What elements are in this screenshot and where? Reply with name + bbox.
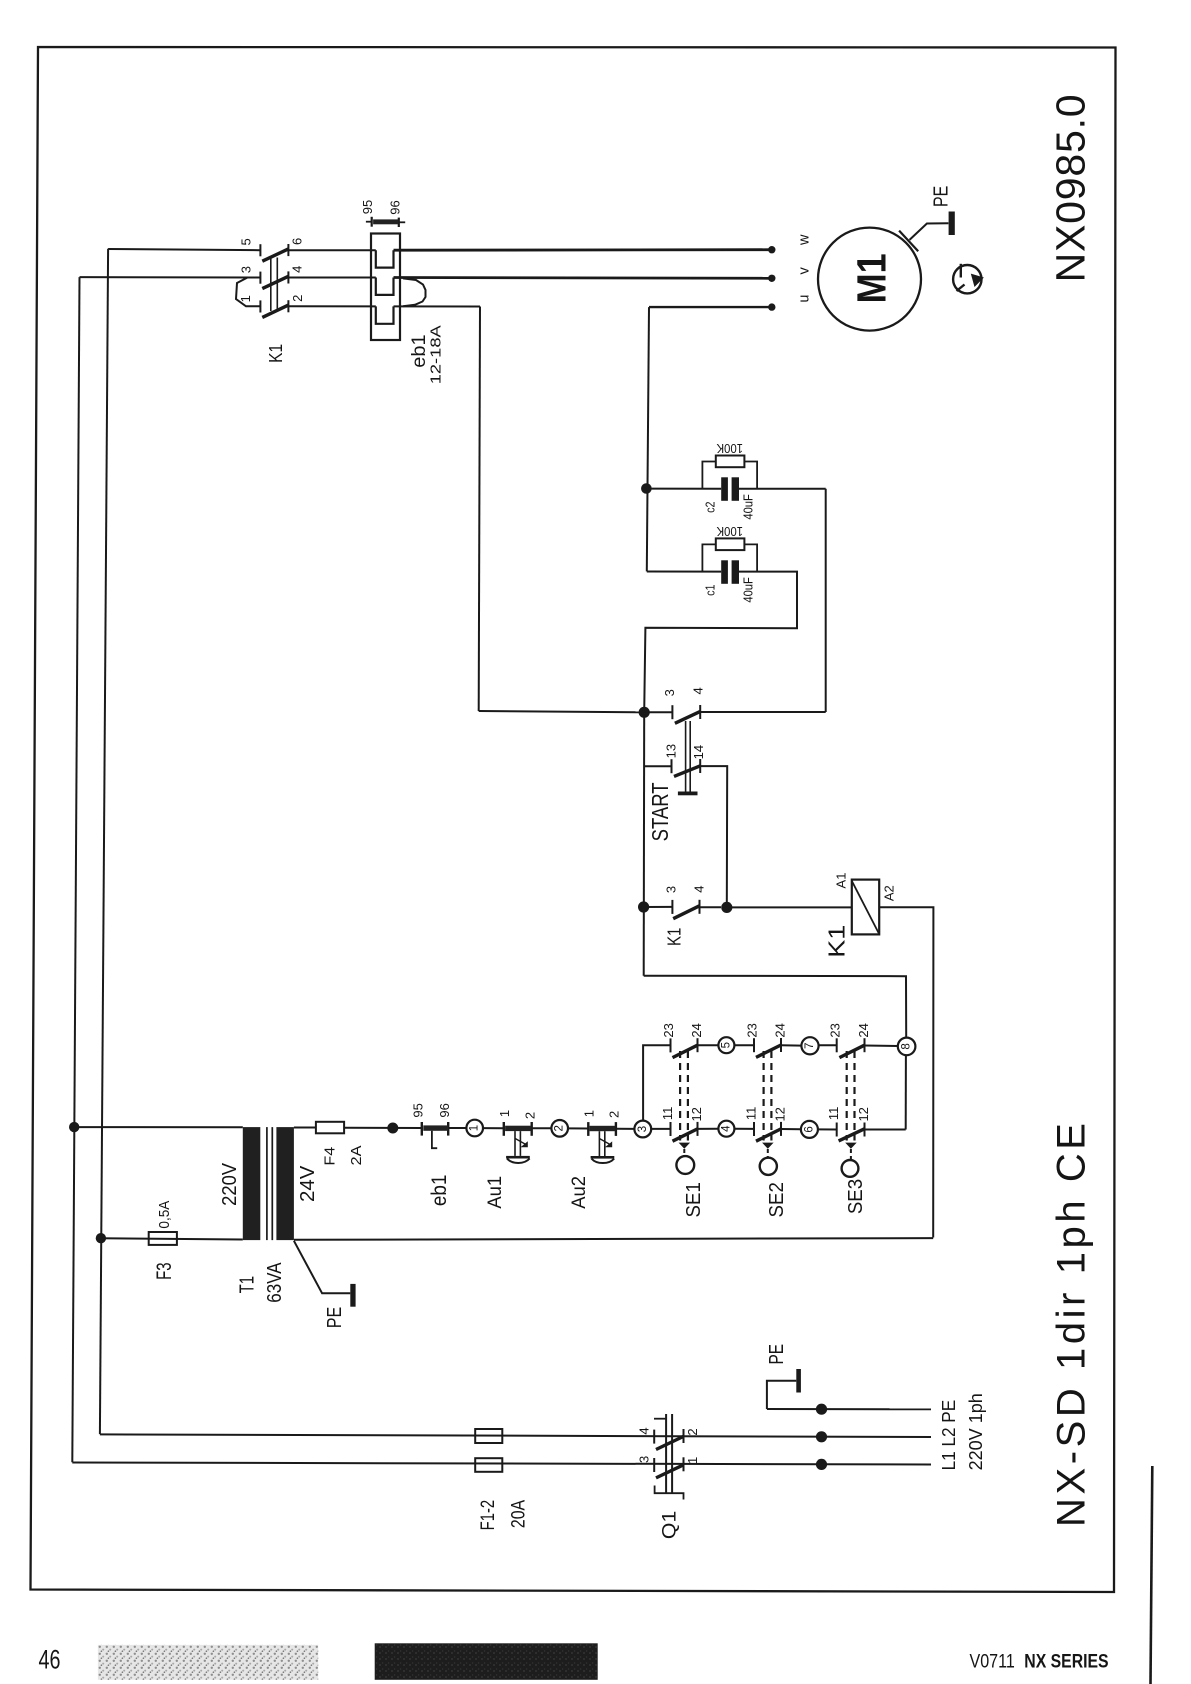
svg-text:2: 2 [685, 1428, 700, 1435]
wire motor U branch vertical [647, 307, 649, 571]
contact SE3 23-24 ticks [836, 1038, 838, 1052]
wire node 6 to SE3-11 [818, 1128, 837, 1130]
overload eb1 heater U [376, 306, 394, 323]
svg-text:NX-SD 1dir 1ph CE: NX-SD 1dir 1ph CE [1050, 1123, 1094, 1527]
wire K1 aux node to contact [644, 906, 673, 908]
wire START 4 to c2 riser [700, 711, 826, 713]
svg-text:14: 14 [691, 745, 706, 759]
contact eb1 95-96 aux ticks [421, 1122, 423, 1136]
node dot K1 aux left [638, 901, 649, 912]
contactor K1 pole 3-4 ticks [259, 272, 261, 284]
linkage SE1 arrow [679, 1143, 691, 1149]
wire c2 row left [646, 488, 721, 490]
svg-text:95: 95 [360, 200, 375, 214]
wire supply rail A (L1) vertical [72, 277, 79, 1462]
node dot START [639, 707, 650, 718]
contact SE1 11-12 ticks [670, 1122, 672, 1136]
svg-text:24: 24 [689, 1023, 704, 1037]
svg-text:1: 1 [469, 1125, 481, 1131]
wire bottom row right (secondary to coil return) [294, 1238, 933, 1240]
wire phase U to eb1 [288, 305, 375, 307]
svg-text:11: 11 [744, 1107, 759, 1121]
svg-text:11: 11 [660, 1107, 675, 1121]
wire SE3-24 to node 8 [865, 1045, 898, 1048]
resistor 100K (c2) [716, 456, 745, 468]
wire phase W to eb1 [288, 249, 375, 251]
pushbutton Au1 twist-release mark [515, 1139, 527, 1146]
pushbutton Au2 bridge [590, 1126, 616, 1131]
linkage SE3 dashed [846, 1051, 848, 1141]
svg-text:40uF: 40uF [741, 494, 756, 520]
contact START 13-14 ticks [671, 759, 673, 773]
transformer T1 primary winding [243, 1127, 260, 1240]
svg-text:13: 13 [664, 744, 679, 758]
fuse F1 [475, 1429, 502, 1443]
wire phase V to eb1 [288, 277, 375, 279]
pushbutton Au2 ticks [587, 1122, 589, 1136]
svg-text:4: 4 [720, 1125, 732, 1132]
svg-text:M1: M1 [849, 253, 895, 303]
switch Q1 linkage [665, 1414, 667, 1493]
contactor K1 pole 1-2 blade [262, 305, 288, 317]
svg-text:3: 3 [239, 266, 254, 273]
node L1 terminal dot [816, 1459, 827, 1470]
wire node 2 to Au2 [568, 1127, 588, 1129]
contact SE2 23-24 blade [756, 1045, 781, 1057]
node circle 2 [551, 1120, 568, 1137]
svg-text:2: 2 [554, 1125, 566, 1131]
svg-text:4: 4 [290, 266, 305, 273]
wire L1 bottom row [72, 1463, 931, 1465]
wire phase V to motor [394, 276, 772, 280]
svg-text:95: 95 [411, 1103, 426, 1117]
contact eb1 95-96 stubs [366, 221, 372, 223]
svg-text:K1: K1 [664, 928, 684, 947]
wire node 7 to SE3-23 [819, 1044, 837, 1046]
svg-text:w: w [797, 234, 813, 246]
actuator SE1 [676, 1156, 694, 1174]
svg-text:1: 1 [238, 295, 253, 302]
svg-text:6: 6 [803, 1126, 815, 1132]
node circle 8 [898, 1038, 916, 1056]
resistor 100K (c1) [716, 538, 745, 550]
fuse F4 [316, 1122, 344, 1134]
wire c1 row right with return [644, 572, 797, 713]
contactor K1 pole 5-6 ticks [259, 244, 261, 256]
svg-text:24: 24 [856, 1023, 871, 1037]
svg-text:4: 4 [691, 687, 706, 694]
svg-text:Q1: Q1 [658, 1511, 680, 1539]
contact SE1 23-24 blade [673, 1045, 698, 1057]
svg-text:V0711: V0711 [970, 1652, 1015, 1673]
svg-text:46: 46 [39, 1645, 61, 1675]
ground PE (T1) [350, 1284, 355, 1307]
svg-text:c1: c1 [702, 585, 717, 596]
contact K1 3-4 ticks [671, 900, 673, 914]
contact START 13-14 left wire [645, 765, 672, 767]
node dot rail B / bottom row [96, 1233, 106, 1243]
overload eb1 heater W [376, 250, 394, 267]
wire secondary top to F4 [294, 1127, 316, 1129]
svg-text:12-18A: 12-18A [429, 325, 445, 384]
svg-text:24V: 24V [296, 1165, 319, 1202]
wire phase W to motor [394, 248, 772, 251]
wire SE1-12 to node 4 [698, 1128, 719, 1130]
wire bottom row left (rail B to F3) [101, 1238, 243, 1239]
wire PE riser [767, 1381, 796, 1409]
svg-text:2: 2 [290, 295, 305, 302]
svg-text:12: 12 [689, 1107, 704, 1121]
resistor loop c1 [702, 544, 715, 571]
jumper L to pole 1 [236, 278, 260, 307]
svg-text:SE3: SE3 [844, 1179, 867, 1214]
node PE terminal dot [816, 1404, 827, 1415]
transformer T1 core lines [266, 1127, 268, 1240]
wire top row to K1 pole 5 [108, 249, 260, 250]
svg-text:1: 1 [497, 1110, 512, 1117]
wire supply rail B (L2) vertical [100, 249, 108, 1434]
contactor K1 linkage [270, 258, 272, 312]
pushbutton Au2 stem [598, 1131, 600, 1156]
coil K1 [852, 880, 879, 935]
svg-text:A1: A1 [834, 873, 849, 889]
pushbutton Au2 twist-release mark [600, 1139, 612, 1146]
contact eb1 aux thermal stem [432, 1131, 437, 1148]
contact eb1 95-96 aux bridge [423, 1125, 448, 1130]
node circle 1 [466, 1120, 483, 1137]
pushbutton START head [678, 792, 698, 796]
wire node 3 riser to row 23-24 [643, 1045, 670, 1120]
svg-text:u: u [797, 295, 813, 303]
node dot c2 [641, 483, 652, 494]
wire node 1 to Au1 [483, 1127, 504, 1129]
pushbutton Au1 stem [514, 1131, 516, 1156]
actuator SE2 [760, 1158, 777, 1175]
switch Q1 pole 3-4 blade [656, 1436, 684, 1449]
linkage SE3 arrow [845, 1143, 857, 1149]
svg-text:v: v [796, 267, 812, 275]
node circle 4 [718, 1121, 734, 1137]
contact SE2 23-24 ticks [753, 1038, 755, 1052]
wire SE3-12 to riser [865, 1129, 906, 1131]
pushbutton Au1 bridge [505, 1126, 531, 1131]
contact SE1 23-24 ticks [670, 1038, 672, 1052]
svg-text:PE: PE [930, 186, 952, 207]
node circle 5 [718, 1037, 734, 1053]
wire SE2-24 to node 7 [781, 1044, 801, 1046]
pushbutton Au1 ticks [503, 1122, 505, 1136]
contact SE3 11-12 blade [839, 1129, 865, 1141]
svg-text:SE2: SE2 [765, 1182, 788, 1217]
wire riser row 11-12 to node 8 [905, 1055, 907, 1129]
wire T1 PE diagonal [294, 1241, 350, 1294]
svg-text:L1 L2 PE: L1 L2 PE [938, 1400, 959, 1471]
wire PE bottom row [767, 1408, 931, 1410]
svg-text:F4: F4 [322, 1147, 339, 1166]
node circle 3 [634, 1121, 651, 1138]
svg-text:5: 5 [720, 1042, 732, 1048]
svg-text:23: 23 [744, 1023, 759, 1037]
svg-text:1: 1 [581, 1110, 596, 1117]
wire c2 row right [739, 488, 826, 490]
contact START 13-14 blade [674, 766, 700, 777]
node motor terminal V [768, 275, 775, 282]
wire SE1-24 to node 5 [698, 1044, 719, 1046]
rotation direction symbol [953, 265, 981, 293]
linkage START [685, 721, 687, 792]
contactor K1 pole 5-6 blade [262, 249, 288, 261]
contact SE2 11-12 ticks [753, 1122, 755, 1136]
node dot rail A / control row [69, 1122, 79, 1132]
wire motor U feed [649, 306, 772, 308]
svg-text:0,5A: 0,5A [157, 1200, 173, 1228]
contactor K1 pole 1-2 ticks [259, 300, 261, 312]
svg-text:8: 8 [901, 1043, 913, 1049]
svg-text:5: 5 [239, 238, 254, 245]
svg-text:K1: K1 [266, 344, 286, 363]
wire SE2-12 to node 6 [781, 1128, 801, 1130]
contact SE1 11-12 blade [673, 1129, 698, 1141]
wire c1 row left [647, 571, 721, 573]
svg-text:4: 4 [637, 1427, 652, 1434]
capacitor c1 plates [721, 560, 728, 584]
fuse F3 [149, 1232, 177, 1245]
wire row 11-12 from node 3 [651, 1128, 670, 1130]
contactor K1 pole 3-4 blade [262, 276, 288, 288]
node circle 7 [801, 1037, 818, 1054]
contact K1 3-4 blade [673, 906, 700, 919]
wire F4 to eb1 aux [344, 1127, 422, 1129]
contact SE3 11-12 ticks [836, 1123, 838, 1137]
contact eb1 95-96 ticks [371, 217, 373, 227]
contact eb1 95-96 bridge [373, 219, 398, 224]
wire Au2 to node 3 [616, 1128, 635, 1130]
svg-text:220V: 220V [218, 1163, 241, 1206]
pushbutton Au2 mushroom head [591, 1156, 615, 1159]
switch Q1 pole 1-2 ticks [653, 1458, 655, 1472]
svg-text:12: 12 [856, 1107, 871, 1121]
svg-text:40uF: 40uF [741, 577, 756, 603]
linkage SE2 arrow [762, 1143, 774, 1149]
linkage SE2 dashed [762, 1051, 764, 1141]
svg-text:Au2: Au2 [568, 1176, 590, 1209]
svg-text:2: 2 [523, 1112, 538, 1119]
svg-text:NX SERIES: NX SERIES [1024, 1652, 1108, 1673]
wire phase U to drop [394, 305, 481, 307]
svg-text:F1-2: F1-2 [477, 1500, 499, 1531]
overload eb1 heater V [376, 278, 394, 295]
wire main ladder vertical [643, 712, 646, 975]
wire node to coil A1 [727, 906, 852, 908]
svg-text:NX0985.0: NX0985.0 [1048, 94, 1094, 282]
wire START 14 riser [700, 766, 727, 907]
transformer T1 secondary winding [276, 1127, 294, 1240]
svg-text:100K: 100K [716, 441, 743, 455]
wire START node to contact [644, 711, 672, 713]
svg-text:2A: 2A [348, 1146, 365, 1166]
svg-text:Au1: Au1 [484, 1176, 506, 1209]
wire eb1 pole 2 output drop [479, 307, 480, 712]
wire motor PE [910, 223, 949, 240]
svg-text:eb1: eb1 [428, 1175, 451, 1207]
node motor terminal W [768, 246, 775, 253]
node circle 6 [801, 1121, 818, 1138]
svg-text:12: 12 [773, 1107, 788, 1121]
stamp dark block [375, 1643, 598, 1680]
wire node 5 to SE2-23 [734, 1044, 754, 1046]
svg-text:SE1: SE1 [682, 1182, 705, 1217]
svg-text:63VA: 63VA [263, 1262, 286, 1303]
motor M1 circle [818, 228, 921, 331]
svg-text:6: 6 [290, 238, 305, 245]
overload eb1 box [371, 234, 400, 341]
ground PE (motor) [949, 212, 955, 236]
wire to START node [479, 711, 645, 712]
svg-text:3: 3 [664, 886, 679, 893]
wire Au1 to node 2 [532, 1127, 552, 1129]
svg-text:11: 11 [826, 1107, 841, 1121]
svg-text:c2: c2 [702, 502, 717, 513]
ground PE (supply) [796, 1369, 801, 1393]
svg-text:23: 23 [661, 1023, 676, 1037]
actuator SE3 [842, 1160, 859, 1177]
stamp light speckle [98, 1645, 318, 1680]
switch Q1 pole 1-2 blade [656, 1465, 684, 1478]
node L2 terminal dot [816, 1431, 827, 1442]
svg-text:24: 24 [772, 1023, 787, 1037]
svg-text:3: 3 [637, 1456, 652, 1463]
contact SE3 23-24 blade [839, 1045, 864, 1057]
motor PE frame tick [899, 231, 918, 252]
wire node 4 to SE2-11 [734, 1128, 754, 1130]
jumper eb1 output V-U [403, 278, 426, 306]
wire top row to K1 pole 3 [80, 276, 261, 278]
node dot control row [387, 1123, 398, 1134]
wire eb1 aux to node 1 [448, 1127, 466, 1129]
resistor loop c2 [702, 462, 715, 489]
wire K1-4 to node [700, 906, 722, 908]
svg-text:K1: K1 [824, 925, 850, 958]
wire c2 riser [825, 489, 827, 712]
pushbutton Au1 mushroom head [506, 1156, 530, 1159]
contact START 3-4 blade [675, 712, 700, 724]
svg-text:100K: 100K [716, 524, 743, 538]
svg-text:4: 4 [691, 885, 706, 892]
svg-text:2: 2 [607, 1111, 622, 1118]
linkage SE1 dashed [679, 1051, 681, 1141]
svg-text:3: 3 [662, 689, 677, 696]
svg-text:7: 7 [804, 1043, 816, 1049]
svg-text:220V 1ph: 220V 1ph [965, 1393, 986, 1470]
svg-text:96: 96 [437, 1103, 452, 1117]
svg-text:A2: A2 [882, 885, 897, 901]
svg-text:20A: 20A [508, 1500, 530, 1528]
node dot K1 aux right [721, 902, 732, 913]
wire coil A2 return [879, 907, 933, 1237]
contact START 3-4 ticks [671, 705, 673, 719]
contact SE2 11-12 blade [756, 1129, 781, 1141]
svg-text:START: START [647, 782, 673, 841]
svg-text:T1: T1 [235, 1276, 258, 1294]
capacitor c2 plates [721, 477, 728, 501]
wire control row left (rail A to T1 primary) [74, 1126, 243, 1128]
wire L2 bottom row [100, 1434, 931, 1437]
wire ladder bottom to node 8 [644, 976, 907, 1038]
svg-text:PE: PE [766, 1344, 788, 1365]
svg-text:F3: F3 [152, 1262, 176, 1280]
node motor terminal U [768, 303, 775, 310]
svg-text:23: 23 [828, 1023, 843, 1037]
switch Q1 pole 3-4 ticks [653, 1430, 655, 1444]
svg-text:3: 3 [637, 1126, 649, 1132]
scan artifact line right edge [1151, 1466, 1153, 1684]
svg-text:96: 96 [388, 200, 403, 214]
svg-text:eb1: eb1 [408, 334, 430, 367]
svg-text:1: 1 [685, 1457, 700, 1464]
fuse F2 [475, 1458, 502, 1472]
svg-text:PE: PE [324, 1307, 346, 1329]
